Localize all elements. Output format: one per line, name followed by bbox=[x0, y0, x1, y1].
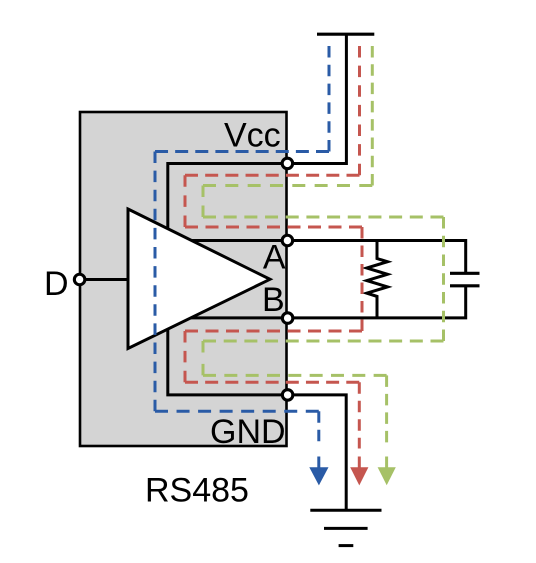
svg-text:A: A bbox=[263, 239, 286, 277]
node A pin bbox=[282, 235, 293, 246]
green loop (capacitor current path) bbox=[203, 46, 444, 449]
green arrow bbox=[378, 467, 396, 485]
wire GND external (node to ground) bbox=[288, 395, 346, 510]
wire A external (A node to cap) bbox=[287, 241, 466, 274]
ground symbol bbox=[310, 510, 381, 545]
red loop (resistor current path) bbox=[185, 46, 362, 449]
red arrow bbox=[350, 467, 368, 485]
wire D input bbox=[80, 278, 130, 281]
node GND pin bbox=[282, 390, 293, 401]
IC body U1 (RS485 transceiver box) bbox=[80, 112, 287, 446]
resistor RT (termination) bbox=[367, 241, 388, 318]
wire GND internal (node to driver bottom) bbox=[168, 322, 288, 395]
svg-text:Vcc: Vcc bbox=[224, 117, 281, 155]
wire Vcc internal (node to driver top) bbox=[168, 164, 287, 236]
blue arrow bbox=[309, 467, 328, 485]
wire A internal bbox=[190, 239, 287, 242]
wire B external (B node to cap) bbox=[288, 286, 466, 318]
wire Vcc supply (node to rail) bbox=[287, 34, 346, 163]
svg-text:RS485: RS485 bbox=[145, 472, 249, 510]
node B pin bbox=[282, 313, 293, 324]
node Vcc pin bbox=[282, 158, 293, 169]
wire B internal bbox=[188, 316, 288, 319]
svg-text:GND: GND bbox=[210, 413, 286, 451]
blue loop (supply current path) bbox=[155, 46, 329, 443]
Vcc supply rail bar bbox=[317, 33, 374, 36]
capacitor C plates bbox=[450, 272, 480, 275]
svg-text:B: B bbox=[262, 281, 285, 319]
node D pin bbox=[74, 274, 85, 285]
svg-text:D: D bbox=[44, 265, 69, 303]
driver buffer triangle bbox=[128, 209, 270, 349]
